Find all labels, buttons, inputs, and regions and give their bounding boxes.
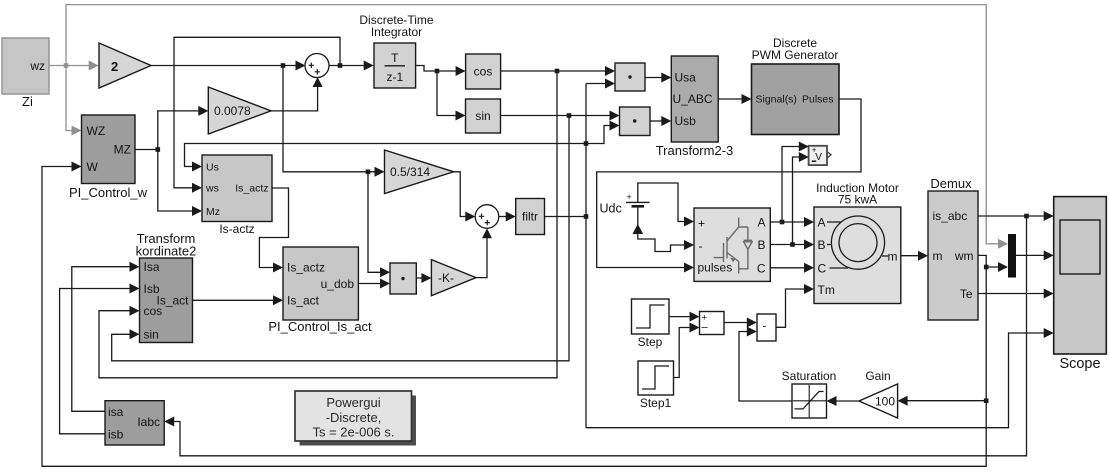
wire Step output to SumStep + xyxy=(669,312,700,322)
svg-text:Iabc: Iabc xyxy=(137,415,160,429)
svg-text:Tm: Tm xyxy=(818,283,835,297)
node junction sin output xyxy=(567,113,572,118)
wire 0.5/314 output to Sum4 xyxy=(454,172,476,222)
svg-text:MZ: MZ xyxy=(114,143,131,157)
svg-text:PI_Control_w: PI_Control_w xyxy=(69,185,148,200)
wire Transform kordinate2 Is_act output to PI_Control_Is_act xyxy=(193,295,284,305)
node junction is_abc xyxy=(1024,214,1029,219)
svg-text:sin: sin xyxy=(475,109,490,123)
wire tap phase A to V measurement + xyxy=(782,142,809,223)
wire MZ branch up to 0.0078 gain xyxy=(158,106,209,150)
wire Sum4 output to filtr xyxy=(499,212,516,222)
wire Step1 output to SumStep - xyxy=(674,323,700,378)
wire Sum2 output up to motor Tm xyxy=(776,284,814,327)
node MZ junction xyxy=(156,147,161,152)
svg-text:m: m xyxy=(888,250,898,264)
wire Iabc isb output up to Transform kordinate2 Isb xyxy=(60,284,140,434)
wire converter C to motor C xyxy=(770,263,814,273)
svg-text:Mz: Mz xyxy=(206,206,220,218)
svg-text:wm: wm xyxy=(954,249,974,263)
node junction integrator output xyxy=(435,69,440,74)
svg-text:u_dob: u_dob xyxy=(321,277,355,291)
svg-text:B: B xyxy=(818,238,826,252)
svg-text:-K-: -K- xyxy=(438,271,454,285)
wire feedback Sum1 output up-left-down to ws input of Is-actz xyxy=(174,37,340,193)
svg-text:Step1: Step1 xyxy=(640,396,672,410)
svg-text:0.0078: 0.0078 xyxy=(214,104,251,118)
wire Demux is_abc output to Scope in1 xyxy=(978,211,1054,221)
wire Demux wm output to Mux in2 xyxy=(978,255,1008,272)
node junction cos output xyxy=(555,69,560,74)
sum block SumStep (square +/-) xyxy=(700,312,725,335)
svg-text:pulses: pulses xyxy=(698,261,733,275)
wire converter A to motor A xyxy=(770,217,814,227)
svg-text:Pulses: Pulses xyxy=(802,94,834,106)
svg-text:z-1: z-1 xyxy=(386,70,403,84)
block filtr xyxy=(516,199,545,235)
gain block Gain (100, pointing left) xyxy=(859,369,898,418)
svg-text:Integrator: Integrator xyxy=(371,25,422,39)
wire motor m output to Demux m input xyxy=(901,251,928,261)
svg-text:sin: sin xyxy=(144,328,159,342)
product block Product3 xyxy=(390,263,416,294)
sum block Sum2 (square -) xyxy=(757,314,776,341)
wire MZ output of PI_Control_w xyxy=(135,149,158,151)
svg-text:is_abc: is_abc xyxy=(933,209,968,223)
svg-text:Is_actz: Is_actz xyxy=(235,183,268,195)
svg-text:Ts = 2e-006 s.: Ts = 2e-006 s. xyxy=(312,425,394,440)
svg-text:Isa: Isa xyxy=(144,260,160,274)
block Iabc xyxy=(105,401,164,445)
wire branch down to Product3 input 1 xyxy=(368,172,390,277)
node junction Sum1 output xyxy=(338,63,343,68)
wire Demux Te output to Scope in3 xyxy=(978,289,1054,299)
svg-text:-: - xyxy=(763,321,767,333)
svg-text:0.5/314: 0.5/314 xyxy=(390,165,430,179)
svg-text:isa: isa xyxy=(108,405,124,419)
svg-text:kordinate2: kordinate2 xyxy=(136,244,197,259)
svg-text:Transform2-3: Transform2-3 xyxy=(656,143,734,158)
wire is_abc feedback down-left to Iabc block input xyxy=(164,216,1026,456)
emitter arrow of IGBT xyxy=(730,258,736,263)
svg-text:Scope: Scope xyxy=(1059,356,1100,372)
svg-text:isb: isb xyxy=(108,428,124,442)
node junction phase A xyxy=(780,220,785,225)
svg-text:m: m xyxy=(933,249,943,263)
svg-text:B: B xyxy=(757,238,765,252)
wire u_dob output to Product3 in2 xyxy=(358,279,390,289)
svg-text:Usa: Usa xyxy=(675,71,697,85)
node junction before 0.5/314 xyxy=(366,170,371,175)
svg-text:Gain: Gain xyxy=(865,369,890,383)
wire SumStep output to Sum2 xyxy=(724,318,757,328)
sum block Sum1 (circle) xyxy=(305,54,329,78)
wire cos output to Product1 xyxy=(501,66,615,76)
node junction filtr output xyxy=(584,214,589,219)
svg-text:C: C xyxy=(757,262,766,276)
voltage measurement block V xyxy=(809,146,831,166)
svg-text:Us: Us xyxy=(206,162,219,174)
wire Integrator output to cos xyxy=(416,66,466,77)
sum block Sum4 (circle) xyxy=(475,205,499,229)
svg-text:W: W xyxy=(87,160,99,174)
block Demux xyxy=(928,176,978,320)
wire Pulses output loop to pulses input of converter xyxy=(597,99,861,273)
block Discrete-Time Integrator xyxy=(359,13,434,88)
wire Udc minus terminal to converter - xyxy=(632,208,694,252)
svg-text:Saturation: Saturation xyxy=(782,369,837,383)
wire U_ABC output to PWM generator xyxy=(718,94,751,104)
svg-text:+: + xyxy=(627,192,632,202)
svg-text:Is-actz: Is-actz xyxy=(219,222,254,236)
svg-text:Is_act: Is_act xyxy=(287,294,320,308)
block Transform kordinate2 xyxy=(136,231,197,343)
svg-text:–: – xyxy=(702,322,709,334)
gain block Gain2 xyxy=(99,43,151,88)
wire tap phase B to V measurement - xyxy=(793,152,809,245)
svg-text:Powergui: Powergui xyxy=(326,395,380,410)
block Discrete PWM Generator xyxy=(752,36,840,135)
wire Saturation output to Sum2 minus input xyxy=(739,327,792,402)
svg-text:Signal(s): Signal(s) xyxy=(756,94,797,106)
svg-text:Udc: Udc xyxy=(600,202,622,216)
mux block Mux (black bar) xyxy=(1008,234,1016,278)
svg-text:cos: cos xyxy=(474,65,493,79)
battery Udc xyxy=(600,192,650,216)
transistor IGBT symbol inside converter xyxy=(714,218,748,274)
svg-text:T: T xyxy=(391,51,399,65)
block Powergui xyxy=(295,391,416,446)
svg-text:Zi: Zi xyxy=(22,94,33,109)
wire Is-actz output to Is_actz input of PI_Control_Is_act xyxy=(259,188,288,273)
svg-text:A: A xyxy=(818,216,826,230)
wire Udc plus terminal to converter + xyxy=(638,183,694,227)
wire Sum1 output to Integrator xyxy=(329,61,374,71)
wire Gain output to Saturation (leftwards) xyxy=(827,396,860,406)
svg-text:+: + xyxy=(698,217,705,231)
wire converter B to motor B xyxy=(770,240,814,250)
wire Product1 output to Usa xyxy=(645,73,671,83)
svg-text:100: 100 xyxy=(875,395,895,409)
block Universal Bridge converter xyxy=(694,208,770,281)
svg-text:Is_actz: Is_actz xyxy=(287,261,325,275)
svg-text:Step: Step xyxy=(638,335,663,349)
svg-text:PWM Generator: PWM Generator xyxy=(752,48,839,62)
source block Zi (wz) xyxy=(2,38,49,109)
svg-text:-Discrete,: -Discrete, xyxy=(326,410,382,425)
block Step1 xyxy=(638,361,674,410)
block Saturation xyxy=(782,369,837,418)
svg-text:filtr: filtr xyxy=(522,210,538,224)
wire Mux output to Scope in2 xyxy=(1016,250,1054,260)
product block Product2 xyxy=(620,107,651,136)
wire Iabc isa output up to Transform kordinate2 Isa xyxy=(72,262,140,412)
svg-text:-: - xyxy=(699,239,703,253)
block Is-actz xyxy=(202,155,272,236)
wire Gain2 output to Sum1 xyxy=(151,61,306,71)
block Induction Motor xyxy=(814,181,901,304)
svg-text:V: V xyxy=(815,152,822,163)
wire MZ branch down to Mz input of Is-actz xyxy=(158,150,202,217)
block Transform2-3 xyxy=(656,56,734,158)
svg-text:C: C xyxy=(818,262,827,276)
svg-text:A: A xyxy=(757,216,765,230)
svg-text:Te: Te xyxy=(960,287,973,301)
svg-text:WZ: WZ xyxy=(87,124,106,138)
block Step xyxy=(632,299,670,349)
wire sin branch down-left to sin input of Transform kordinate2 xyxy=(112,116,569,361)
gain block -K- xyxy=(431,260,476,296)
node junction Gain2 line xyxy=(281,63,286,68)
svg-text:Usb: Usb xyxy=(675,114,697,128)
wire wm tap to Gain 100 input (leftwards) xyxy=(898,396,987,406)
wire sin output to Product2 xyxy=(501,111,620,121)
wire cos branch down-left to cos input of Transform kordinate2 xyxy=(99,71,557,378)
block PI_Control_w xyxy=(69,115,148,200)
svg-text:ws: ws xyxy=(205,183,219,195)
block sin xyxy=(466,99,501,133)
svg-text:2: 2 xyxy=(111,59,118,74)
node junction phase B xyxy=(790,242,795,247)
svg-text:Is_act: Is_act xyxy=(156,294,189,308)
wire 0.0078 output up into Sum1 xyxy=(271,77,323,111)
wire branch down to 0.5/314 gain xyxy=(283,66,385,177)
wire wz branch down to WZ input of PI_Control_w (gray) xyxy=(66,66,82,136)
gain block 0.5/314 xyxy=(385,150,454,194)
node junction filtr net at Us line xyxy=(584,141,589,146)
node junction wm at Gain tap xyxy=(984,398,989,403)
wire wm feedback down-left-up to W input of PI_Control_w xyxy=(42,162,986,467)
svg-text:PI_Control_Is_act: PI_Control_Is_act xyxy=(268,319,372,334)
wire filtr output net (to products, Us, and Scope in4) xyxy=(185,79,1054,428)
wire wz output (gray) to Gain2 xyxy=(49,61,99,71)
diode D1 inside converter xyxy=(744,240,752,249)
node junction wm xyxy=(984,265,989,270)
svg-text:U_ABC: U_ABC xyxy=(673,92,713,106)
wire branch down to sin xyxy=(437,71,466,121)
block PI_Control_Is_act xyxy=(268,247,372,334)
svg-text:75 kwA: 75 kwA xyxy=(838,193,877,207)
product block Product1 xyxy=(615,63,645,91)
wire Product3 output to -K- gain xyxy=(416,273,431,283)
gain block 0.0078 xyxy=(208,87,271,134)
svg-text:Demux: Demux xyxy=(930,176,972,191)
wire Product2 output to Usb xyxy=(650,116,671,126)
svg-text:wz: wz xyxy=(29,59,45,73)
wire -K- output up into Sum4 xyxy=(476,228,492,277)
block Scope xyxy=(1054,197,1107,372)
wire wz branch up along top to Mux (gray) xyxy=(66,5,1008,249)
block cos xyxy=(466,54,501,89)
node wz junction xyxy=(64,63,69,68)
